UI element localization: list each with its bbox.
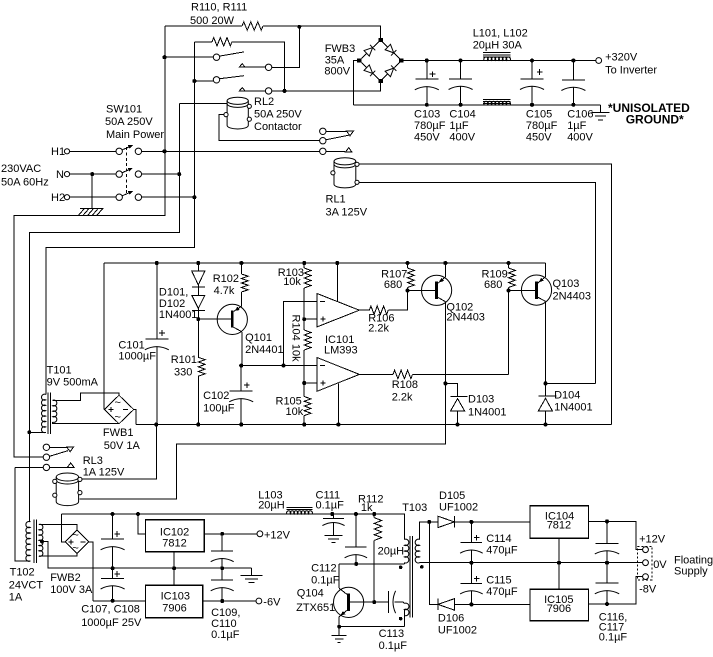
svg-text:7906: 7906 xyxy=(547,603,571,615)
svg-text:500 20W: 500 20W xyxy=(190,15,235,27)
svg-text:680: 680 xyxy=(484,279,502,291)
svg-text:N: N xyxy=(56,169,64,181)
svg-text:50A 250V: 50A 250V xyxy=(105,116,153,128)
svg-text:FWB1: FWB1 xyxy=(103,427,134,439)
svg-text:IC102: IC102 xyxy=(160,527,189,539)
svg-text:2N4401: 2N4401 xyxy=(245,344,284,356)
svg-text:R110, R111: R110, R111 xyxy=(191,2,247,14)
svg-text:RL3: RL3 xyxy=(83,455,103,467)
svg-text:1A 125V: 1A 125V xyxy=(83,467,125,479)
svg-text:+12V: +12V xyxy=(264,529,291,541)
svg-text:0.1µF: 0.1µF xyxy=(379,640,408,652)
svg-text:2N4403: 2N4403 xyxy=(446,311,485,323)
svg-text:R102: R102 xyxy=(213,273,239,285)
svg-text:470µF: 470µF xyxy=(486,586,518,598)
svg-text:IC103: IC103 xyxy=(161,591,190,603)
svg-text:LM393: LM393 xyxy=(324,345,358,357)
svg-text:1000µF 25V: 1000µF 25V xyxy=(81,617,142,629)
svg-text:SW101: SW101 xyxy=(106,104,142,116)
svg-text:R101: R101 xyxy=(171,354,197,366)
svg-text:C113: C113 xyxy=(379,628,404,640)
svg-text:1N4001: 1N4001 xyxy=(159,309,198,321)
svg-text:D103: D103 xyxy=(468,394,494,406)
svg-text:3A 125V: 3A 125V xyxy=(326,206,368,218)
svg-text:~: ~ xyxy=(72,543,78,555)
svg-text:UF1002: UF1002 xyxy=(438,625,477,637)
svg-text:C112: C112 xyxy=(311,563,336,575)
svg-text:H1: H1 xyxy=(51,146,65,158)
svg-text:D105: D105 xyxy=(439,490,465,502)
svg-text:L101, L102: L101, L102 xyxy=(473,28,528,40)
svg-text:1µF: 1µF xyxy=(449,120,468,132)
svg-text:~: ~ xyxy=(72,529,78,541)
svg-text:0.1µF: 0.1µF xyxy=(316,500,345,512)
svg-text:24VCT: 24VCT xyxy=(9,579,44,591)
svg-text:C103: C103 xyxy=(414,108,440,120)
svg-text:9V 500mA: 9V 500mA xyxy=(47,377,99,389)
svg-text:4.7k: 4.7k xyxy=(214,285,235,297)
svg-text:R108: R108 xyxy=(392,379,418,391)
svg-text:C114: C114 xyxy=(486,533,511,545)
svg-text:0V: 0V xyxy=(653,559,667,571)
svg-text:Q104: Q104 xyxy=(297,588,324,600)
svg-text:R104 10k: R104 10k xyxy=(290,315,302,363)
svg-text:0.1µF: 0.1µF xyxy=(311,575,340,587)
svg-text:680: 680 xyxy=(384,279,402,291)
svg-text:C115: C115 xyxy=(486,574,511,586)
svg-text:50A 60Hz: 50A 60Hz xyxy=(1,176,49,188)
svg-text:450V: 450V xyxy=(526,131,552,143)
svg-text:10k: 10k xyxy=(286,406,304,418)
svg-text:1N4001: 1N4001 xyxy=(554,401,593,413)
svg-text:GROUND*: GROUND* xyxy=(626,112,684,126)
svg-text:Main Power: Main Power xyxy=(106,129,164,141)
svg-text:35A: 35A xyxy=(325,55,345,67)
svg-text:D104: D104 xyxy=(554,389,580,401)
svg-text:C106: C106 xyxy=(567,108,593,120)
svg-text:0.1µF: 0.1µF xyxy=(599,632,628,644)
svg-text:ZTX651: ZTX651 xyxy=(296,602,335,614)
svg-text:230VAC: 230VAC xyxy=(1,163,41,175)
svg-text:800V: 800V xyxy=(324,66,350,78)
svg-text:FWB2: FWB2 xyxy=(50,572,81,584)
svg-text:100V 3A: 100V 3A xyxy=(50,584,93,596)
svg-text:2.2k: 2.2k xyxy=(368,322,389,334)
svg-text:400V: 400V xyxy=(567,131,593,143)
svg-text:2N4403: 2N4403 xyxy=(553,291,592,303)
svg-text:1N4001: 1N4001 xyxy=(468,407,507,419)
svg-text:50V 1A: 50V 1A xyxy=(104,440,141,452)
svg-text:C107, C108: C107, C108 xyxy=(81,604,140,616)
svg-text:~: ~ xyxy=(115,411,121,423)
svg-text:C101: C101 xyxy=(118,339,144,351)
svg-text:100µF: 100µF xyxy=(203,403,235,415)
svg-text:2.2k: 2.2k xyxy=(392,392,413,404)
svg-text:50A 250V: 50A 250V xyxy=(254,109,302,121)
svg-text:D102: D102 xyxy=(159,298,185,310)
svg-text:T101: T101 xyxy=(47,365,72,377)
svg-text:20µH: 20µH xyxy=(378,546,405,558)
svg-text:7812: 7812 xyxy=(547,520,571,532)
svg-text:780µF: 780µF xyxy=(414,120,446,132)
svg-text:C105: C105 xyxy=(526,108,552,120)
svg-text:7812: 7812 xyxy=(162,538,186,550)
svg-text:To Inverter: To Inverter xyxy=(605,64,657,76)
svg-text:470µF: 470µF xyxy=(486,545,518,557)
svg-text:330: 330 xyxy=(174,366,192,378)
svg-text:20µH: 20µH xyxy=(258,500,285,512)
svg-text:Q101: Q101 xyxy=(245,332,272,344)
svg-text:780µF: 780µF xyxy=(526,120,558,132)
svg-text:Contactor: Contactor xyxy=(254,121,302,133)
svg-text:400V: 400V xyxy=(449,131,475,143)
svg-text:-8V: -8V xyxy=(639,584,657,596)
svg-text:D106: D106 xyxy=(438,613,464,625)
svg-text:20µH 30A: 20µH 30A xyxy=(473,40,523,52)
svg-text:1µF: 1µF xyxy=(567,120,586,132)
svg-text:1000µF: 1000µF xyxy=(118,351,156,363)
svg-text:0.1µF: 0.1µF xyxy=(211,629,240,641)
svg-text:1A: 1A xyxy=(9,591,23,603)
svg-text:T102: T102 xyxy=(10,567,35,579)
svg-text:RL1: RL1 xyxy=(326,194,346,206)
svg-text:+320V: +320V xyxy=(605,51,638,63)
svg-text:RL2: RL2 xyxy=(254,96,274,108)
svg-text:H2: H2 xyxy=(51,192,65,204)
svg-text:FWB3: FWB3 xyxy=(325,43,356,55)
svg-text:+12V: +12V xyxy=(639,534,666,546)
svg-text:C104: C104 xyxy=(449,108,475,120)
svg-text:7906: 7906 xyxy=(162,602,186,614)
svg-text:10k: 10k xyxy=(283,276,301,288)
svg-text:UF1002: UF1002 xyxy=(439,502,478,514)
svg-text:Supply: Supply xyxy=(674,566,708,578)
svg-text:D101,: D101, xyxy=(159,287,188,299)
svg-text:Floating: Floating xyxy=(674,554,713,566)
svg-text:~: ~ xyxy=(115,397,121,409)
svg-text:-6V: -6V xyxy=(263,596,281,608)
svg-text:1k: 1k xyxy=(361,502,373,514)
svg-text:450V: 450V xyxy=(414,131,440,143)
svg-text:T103: T103 xyxy=(402,502,427,514)
svg-text:Q103: Q103 xyxy=(553,278,580,290)
svg-text:C102: C102 xyxy=(203,390,229,402)
